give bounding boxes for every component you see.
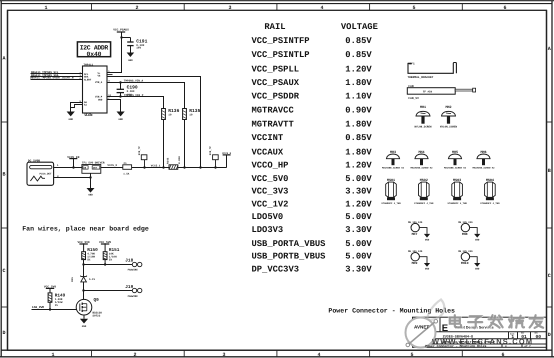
Q9 source wire: [83, 315, 85, 319]
watermark logo swoosh: [427, 300, 444, 321]
wire 5V bus: [101, 167, 227, 169]
frame zone numbers bottom: [51, 352, 504, 358]
capacitor C191: [127, 38, 147, 53]
svg-text:00: 00: [536, 334, 542, 340]
wire to J19: [84, 290, 133, 292]
svg-text:5V0_TP: 5V0_TP: [209, 146, 212, 156]
svg-text:10V: 10V: [127, 93, 132, 96]
watermark char dian: [450, 315, 461, 327]
wire jack pin3: [54, 177, 91, 179]
svg-text:NYLON_SCREW: NYLON_SCREW: [414, 125, 432, 128]
svg-text:Fan wires, place near board ed: Fan wires, place near board edge: [22, 225, 149, 232]
svg-text:A: A: [2, 56, 5, 62]
svg-text:GND: GND: [118, 118, 123, 121]
test point TP2: [209, 146, 218, 169]
junction sense line 1: [162, 166, 164, 168]
svg-text:3.30V: 3.30V: [345, 225, 372, 235]
standoff MSO3: [447, 178, 467, 205]
svg-text:10: 10: [189, 114, 193, 117]
svg-text:VCC_PSDDR: VCC_PSDDR: [252, 91, 300, 101]
wire V+ pin to flag: [107, 38, 122, 73]
Q9 drain wire: [83, 291, 85, 300]
svg-text:GND: GND: [425, 238, 430, 241]
svg-text:MH10: MH10: [461, 261, 469, 265]
svg-text:0.010: 0.010: [178, 156, 181, 164]
power flag VCC5_IN: [67, 156, 79, 169]
IC U35 TMP411: [80, 64, 112, 119]
svg-text:MGTRAVTT: MGTRAVTT: [252, 119, 295, 129]
svg-text:1: 1: [44, 5, 47, 11]
svg-text:FAN_PWM: FAN_PWM: [32, 306, 44, 309]
svg-text:1.20V: 1.20V: [345, 199, 372, 209]
power flag VCC_PSAUX: [113, 29, 129, 38]
svg-text:16V: 16V: [136, 46, 141, 49]
standoff MSO2: [414, 178, 434, 205]
watermark char zi: [468, 316, 482, 328]
svg-text:5.00V: 5.00V: [345, 239, 372, 249]
svg-text:SOT23: SOT23: [93, 314, 101, 317]
svg-text:GND: GND: [82, 325, 87, 328]
connector J19: [125, 285, 142, 298]
svg-text:VCCAUX: VCCAUX: [252, 148, 284, 158]
svg-text:GND: GND: [98, 99, 103, 102]
svg-text:5V0_TP: 5V0_TP: [138, 146, 141, 156]
svg-text:FANWIRE: FANWIRE: [128, 295, 139, 298]
svg-text:VCC_PSAUX: VCC_PSAUX: [252, 78, 300, 88]
resistor R150: [82, 248, 98, 265]
svg-text:MACHINE_SCREW #2: MACHINE_SCREW #2: [382, 166, 405, 169]
svg-text:LDO3V3: LDO3V3: [252, 225, 284, 235]
mounting hole pad MH8: [458, 221, 480, 242]
screw MH4: [410, 150, 433, 169]
svg-text:AVNET: AVNET: [414, 325, 429, 330]
svg-text:THERMAL_BRACKET: THERMAL_BRACKET: [407, 76, 433, 79]
svg-text:4: 4: [317, 352, 320, 358]
svg-text:VOLTAGE: VOLTAGE: [341, 22, 378, 32]
wire net VIN_A: [107, 79, 185, 108]
svg-text:5: 5: [410, 352, 413, 358]
logo avnet orbit: [406, 318, 438, 348]
wire U35 GND pin: [107, 100, 121, 112]
svg-text:GND: GND: [425, 268, 430, 271]
wire net FAN_PWM: [32, 306, 78, 310]
svg-text:VCC_PSINTFP: VCC_PSINTFP: [252, 36, 310, 46]
svg-text:FAN_5V: FAN_5V: [408, 97, 419, 100]
svg-text:0.85V: 0.85V: [345, 50, 372, 60]
svg-text:RAIL: RAIL: [264, 22, 285, 32]
svg-text:6: 6: [503, 5, 506, 11]
svg-text:STANDOFF 4_THR: STANDOFF 4_THR: [381, 202, 401, 205]
svg-text:STANDOFF 4_THR: STANDOFF 4_THR: [447, 202, 467, 205]
svg-text:5.00V: 5.00V: [345, 212, 372, 222]
svg-text:5%: 5%: [109, 258, 113, 261]
svg-text:MH2: MH2: [445, 105, 451, 110]
svg-text:U35: U35: [84, 112, 93, 118]
connector J17 barrel jack: [27, 159, 59, 185]
svg-text:5%: 5%: [87, 258, 91, 261]
fuse F1: [123, 162, 132, 175]
svg-text:5.00V: 5.00V: [345, 252, 372, 262]
svg-text:1.80V: 1.80V: [345, 119, 372, 129]
svg-text:1.20V: 1.20V: [345, 64, 372, 74]
svg-text:MACHINE_SCREW #2: MACHINE_SCREW #2: [444, 166, 467, 169]
svg-text:ALERT: ALERT: [84, 78, 92, 81]
fan assembly FAN1: [407, 85, 475, 100]
svg-text:B: B: [2, 172, 5, 178]
frame zone letters left: [2, 56, 5, 337]
transistor Q9: [76, 298, 102, 318]
zener diode D15: [71, 265, 96, 291]
svg-text:5.1V: 5.1V: [89, 278, 96, 281]
screw MH5: [444, 150, 467, 169]
svg-text:VCC_3V3: VCC_3V3: [252, 187, 289, 197]
screw MH3: [382, 150, 405, 169]
svg-text:Q9: Q9: [94, 298, 100, 303]
svg-text:1: 1: [51, 352, 54, 358]
svg-text:5: 5: [412, 5, 415, 11]
power flag VCC_5V0 over R150: [78, 241, 90, 252]
svg-text:VCCO_HP: VCCO_HP: [252, 161, 289, 171]
svg-text:MACHINE_SCREW #2: MACHINE_SCREW #2: [410, 166, 433, 169]
svg-text:1.80V: 1.80V: [345, 78, 372, 88]
svg-text:1.80V: 1.80V: [345, 148, 372, 158]
svg-text:DP_VCC3V3: DP_VCC3V3: [252, 265, 300, 275]
connector J18: [125, 258, 142, 271]
svg-text:MH1: MH1: [420, 105, 426, 110]
svg-text:R142: R142: [167, 157, 170, 164]
svg-text:STANDOFF 4_THR: STANDOFF 4_THR: [414, 202, 434, 205]
svg-text:MH8: MH8: [462, 232, 468, 236]
svg-text:0.85V: 0.85V: [345, 133, 372, 143]
svg-text:C: C: [548, 273, 551, 279]
wire U35 pin to sense bus: [107, 77, 201, 168]
watermark char you: [530, 315, 544, 328]
mounting hole pad MH10: [458, 250, 480, 271]
svg-text:0.85V: 0.85V: [345, 36, 372, 46]
svg-text:10: 10: [168, 114, 172, 117]
rail voltage table: [252, 22, 378, 275]
svg-text:VCC_1V2: VCC_1V2: [252, 199, 289, 209]
ground under C191: [127, 53, 135, 62]
svg-text:GND: GND: [68, 118, 73, 121]
junction sense line 3: [199, 166, 201, 168]
svg-text:VCC5_1: VCC5_1: [151, 164, 161, 167]
ground under U35 right: [117, 112, 125, 121]
svg-text:D15: D15: [71, 277, 74, 282]
svg-text:6: 6: [501, 352, 504, 358]
thermal bracket HSF1: [407, 63, 456, 80]
svg-text:PLUG_DET: PLUG_DET: [40, 173, 53, 176]
watermark char shao: [509, 316, 524, 328]
svg-text:1.10V: 1.10V: [345, 91, 372, 101]
resistor R135: [183, 108, 201, 167]
svg-text:MH9: MH9: [412, 261, 418, 265]
frame column ticks top: [92, 3, 463, 10]
junction: [120, 36, 122, 38]
junction R151 bottom: [104, 263, 106, 265]
svg-text:GND: GND: [88, 194, 93, 197]
svg-text:MACHINE_SCREW #2: MACHINE_SCREW #2: [472, 166, 495, 169]
capacitor C190: [117, 81, 138, 97]
screw MH6: [472, 150, 495, 169]
svg-text:5.00V: 5.00V: [345, 174, 372, 184]
pin 8 stub: [107, 74, 113, 76]
svg-text:VCC_PSAUX: VCC_PSAUX: [113, 29, 129, 32]
svg-text:2: 2: [135, 5, 138, 11]
svg-text:2: 2: [133, 352, 136, 358]
svg-text:3: 3: [228, 5, 231, 11]
frame zone numbers top: [44, 5, 506, 11]
title block outline: [413, 317, 547, 347]
svg-text:C: C: [2, 268, 5, 274]
standoff MSO1: [381, 178, 401, 205]
wire flag to C191: [122, 37, 131, 39]
svg-text:0x40: 0x40: [87, 51, 102, 58]
power flag VCC_5V0 over R151: [99, 241, 111, 252]
svg-text:E: E: [442, 323, 448, 334]
svg-text:MGTRAVCC: MGTRAVCC: [252, 106, 295, 116]
svg-text:1.5A: 1.5A: [123, 172, 130, 175]
svg-text:3: 3: [222, 352, 225, 358]
svg-text:D: D: [548, 332, 551, 338]
power tie VCC5_0 right: [222, 152, 232, 168]
frame zone letters right: [548, 46, 551, 338]
standoff MSO4: [480, 178, 500, 205]
wire jack pin1 to driver: [54, 167, 82, 169]
screw MH1: [414, 105, 432, 128]
svg-text:NYLON_SCREW: NYLON_SCREW: [440, 125, 458, 128]
svg-text:OUT: OUT: [93, 167, 98, 170]
frame column ticks bottom: [92, 350, 463, 357]
screw MH2: [440, 105, 458, 128]
svg-text:0.90V: 0.90V: [345, 106, 372, 116]
mounting hole pad MH9: [408, 250, 430, 271]
power flag VCC_5V0 over R149: [44, 285, 56, 293]
wire driver to ground: [90, 173, 92, 188]
svg-text:USB_PORTB_VBUS: USB_PORTB_VBUS: [252, 252, 326, 262]
svg-text:GND: GND: [128, 59, 133, 62]
watermark char fa: [489, 315, 503, 328]
svg-text:VCC_5V0: VCC_5V0: [252, 174, 289, 184]
svg-text:USB_PORTA_VBUS: USB_PORTA_VBUS: [252, 239, 326, 249]
resistor R142: [167, 156, 182, 170]
svg-text:LDO5V0: LDO5V0: [252, 212, 284, 222]
wire to J18: [84, 264, 133, 266]
wire net DBG_TMPSNS_SDA: [31, 74, 83, 77]
svg-text:4: 4: [320, 5, 323, 11]
svg-text:GND: GND: [475, 268, 480, 271]
junction R150 bottom: [82, 263, 84, 265]
ferrite driver box L13: [82, 162, 105, 174]
svg-text:VCC5_0: VCC5_0: [107, 164, 117, 167]
svg-text:WWW.ELECFANS.COM: WWW.ELECFANS.COM: [432, 337, 532, 346]
svg-text:GND: GND: [475, 238, 480, 241]
ground under driver: [87, 188, 95, 197]
svg-text:FANWIRE: FANWIRE: [128, 269, 139, 272]
svg-text:D: D: [2, 330, 5, 336]
svg-text:3.30V: 3.30V: [345, 187, 372, 197]
wire net VIN_P: [107, 94, 164, 109]
svg-text:TF #50: TF #50: [423, 91, 433, 94]
test point TP: [138, 146, 147, 169]
svg-text:1.20V: 1.20V: [345, 161, 372, 171]
svg-text:VIN_A: VIN_A: [95, 81, 103, 84]
svg-text:1%: 1%: [55, 304, 59, 307]
svg-text:MH7: MH7: [412, 232, 418, 236]
junction drain node: [82, 289, 84, 291]
wire U35 A0 A1 to ground: [71, 103, 83, 112]
svg-text:A: A: [548, 46, 551, 52]
resistor R149: [48, 293, 66, 310]
resistor R151: [103, 248, 120, 265]
ground under U35 left: [67, 112, 75, 121]
svg-text:TMPSNS_VIN_A: TMPSNS_VIN_A: [124, 79, 144, 82]
ground under Q9: [80, 319, 88, 328]
resistor R136: [162, 108, 180, 167]
wire net DBG_TMPSNS_SCL: [31, 71, 83, 74]
I2C address note box: [77, 42, 110, 58]
junction sense line 2: [183, 166, 185, 168]
svg-text:3.30V: 3.30V: [345, 265, 372, 275]
svg-text:VCC_PSPLL: VCC_PSPLL: [252, 64, 300, 74]
svg-text:B: B: [548, 168, 551, 174]
svg-text:STANDOFF 4_THR: STANDOFF 4_THR: [480, 202, 500, 205]
frame row ticks sides: [1, 122, 552, 307]
wire net DBG_TMPSNS_OVERT_ALERT: [30, 77, 83, 80]
svg-text:VCC_PSINTLP: VCC_PSINTLP: [252, 50, 310, 60]
svg-text:J18: J18: [125, 258, 133, 263]
svg-text:VCCINT: VCCINT: [252, 133, 284, 143]
mounting hole pad MH7: [408, 221, 430, 242]
svg-text:Power Connector - Mounting Hol: Power Connector - Mounting Holes: [328, 308, 455, 315]
